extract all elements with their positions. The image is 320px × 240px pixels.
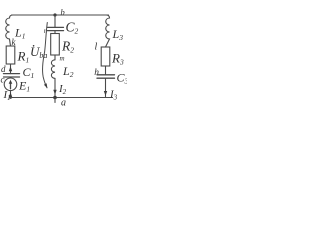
svg-text:d: d [1, 64, 6, 74]
resistor R1 [6, 46, 29, 65]
source E1 [4, 78, 30, 94]
wire R2 to L2 [54, 55, 56, 60]
svg-text:b: b [61, 7, 65, 17]
wire L2 to node a with current arrow I2 [53, 78, 66, 97]
inductor L2 [51, 60, 73, 79]
node a junction with stub [53, 96, 66, 109]
svg-text:m: m [60, 55, 65, 63]
resistor R2 [51, 34, 75, 56]
wire R3 to C3 [105, 66, 107, 75]
svg-text:h: h [94, 68, 99, 78]
svg-text:a: a [61, 98, 66, 109]
svg-text:I3: I3 [109, 89, 118, 102]
node b junction [53, 7, 64, 17]
svg-text:L1: L1 [14, 26, 25, 41]
capacitor C3 [97, 71, 129, 86]
svg-text:C2: C2 [66, 20, 79, 36]
svg-text:I2: I2 [58, 83, 67, 96]
voltage arrow Uba [30, 23, 47, 89]
wire C3 to bottom rail with current arrow I3 [104, 78, 118, 101]
wire R1 to C1 with up arrowhead [9, 64, 12, 74]
svg-text:R1: R1 [17, 49, 30, 65]
svg-text:C3: C3 [117, 71, 128, 86]
resistor R3 [101, 47, 124, 67]
wire top rail b [12, 14, 109, 16]
junction bottom-left [9, 96, 12, 99]
wire C2 to R2 [54, 31, 56, 34]
capacitor C1 [4, 65, 35, 80]
wire b to C2 [54, 15, 56, 27]
inductor L1 [6, 15, 26, 46]
svg-text:E1: E1 [18, 79, 30, 94]
wire E1 to bottom rail with current arrow I1 [3, 89, 13, 102]
svg-text:L2: L2 [62, 64, 74, 79]
svg-text:R3: R3 [111, 51, 124, 67]
inductor L3 [106, 15, 124, 47]
capacitor C2 [48, 20, 79, 36]
svg-text:l: l [95, 42, 98, 53]
svg-text:R2: R2 [61, 39, 74, 55]
svg-text:L3: L3 [112, 27, 124, 42]
wire bottom rail [11, 97, 113, 99]
